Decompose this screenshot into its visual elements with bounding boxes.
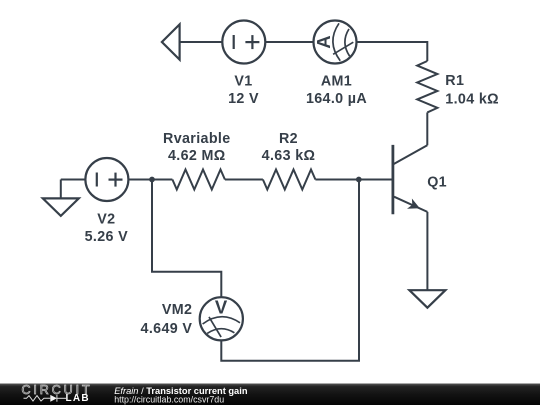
svg-text:V2: V2 [97, 212, 115, 228]
wire R2 to Q1 base [315, 179, 393, 181]
voltage source V2 [85, 158, 128, 201]
svg-text:4.63 kΩ: 4.63 kΩ [262, 148, 316, 164]
svg-text:164.0 µA: 164.0 µA [306, 91, 367, 107]
svg-text:4.62 MΩ: 4.62 MΩ [168, 148, 226, 164]
wire ground to V1 [180, 41, 223, 43]
svg-text:http://circuitlab.com/csvr7du: http://circuitlab.com/csvr7du [114, 395, 224, 405]
transistor Q1 [393, 145, 428, 214]
svg-text:1.04 kΩ: 1.04 kΩ [445, 92, 499, 108]
ground (bottom right) [409, 290, 445, 308]
resistor R2 [263, 170, 316, 190]
svg-text:LAB: LAB [66, 393, 90, 404]
footer bar [0, 384, 540, 405]
ground (top-left, pointing left) [162, 24, 180, 59]
CircuitLab logo [22, 383, 93, 404]
ammeter AM1 [313, 21, 357, 64]
svg-text:R2: R2 [279, 131, 298, 147]
svg-text:A: A [313, 35, 334, 48]
node A junction dot [149, 177, 155, 183]
wire Rvariable to R2 [225, 179, 263, 181]
resistor R1 [417, 61, 437, 112]
svg-text:V1: V1 [234, 74, 252, 90]
svg-text:Q1: Q1 [427, 174, 447, 190]
node B junction dot [356, 177, 362, 183]
wire VM2 bottom to node B [221, 180, 359, 361]
svg-text:5.26 V: 5.26 V [85, 229, 129, 245]
ground (left of V2) [43, 180, 79, 216]
wire AM1 to R1 top [357, 42, 428, 61]
wire V2 to node A [128, 179, 152, 181]
svg-text:Rvariable: Rvariable [163, 131, 231, 147]
wire R1 bottom lead [426, 112, 428, 145]
wire emitter down [426, 212, 428, 290]
wire V1 to AM1 [265, 41, 313, 43]
svg-text:V: V [215, 297, 228, 318]
voltage source V1 [222, 21, 265, 64]
svg-text:4.649 V: 4.649 V [141, 321, 193, 337]
resistor Rvariable [152, 170, 225, 190]
wire node A down to VM2 top [152, 180, 221, 298]
svg-text:12 V: 12 V [228, 91, 259, 107]
voltmeter VM2 [200, 297, 243, 341]
svg-text:AM1: AM1 [321, 74, 352, 90]
wire ground to V2 [61, 179, 86, 181]
svg-text:R1: R1 [445, 73, 464, 89]
svg-text:VM2: VM2 [162, 302, 192, 318]
